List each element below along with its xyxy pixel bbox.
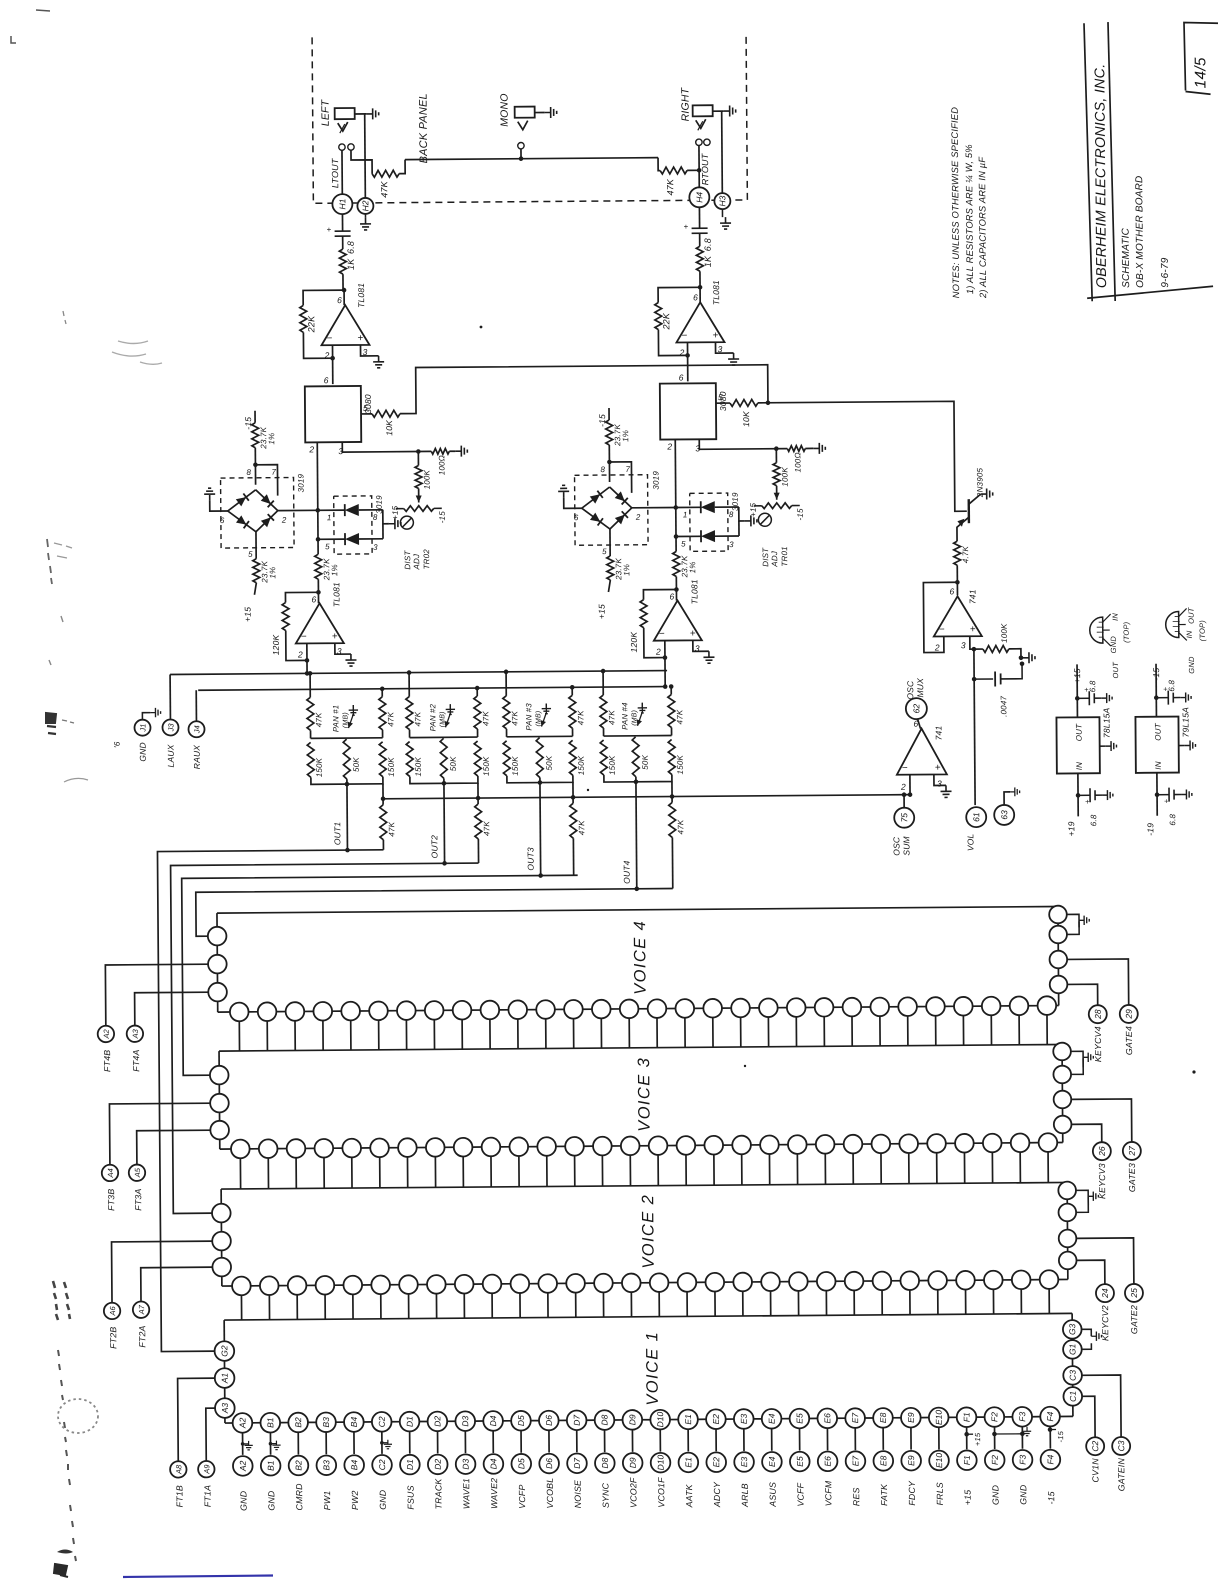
svg-text:26: 26 (1097, 1146, 1107, 1157)
wire pot1 to OUT1 (345, 782, 350, 787)
svg-text:LTOUT: LTOUT (330, 157, 340, 188)
bottom left curl and blot (57, 1550, 73, 1554)
svg-text:E8: E8 (878, 1412, 888, 1423)
svg-text:62: 62 (911, 704, 921, 714)
resistor 47K group2 right (476, 688, 478, 696)
svg-text:6: 6 (324, 375, 329, 385)
voice 3 right pins (1053, 1043, 1071, 1061)
pin 3 ground right (693, 640, 709, 651)
svg-text:6: 6 (574, 513, 579, 522)
connector 25 GATE2 (1076, 1238, 1134, 1284)
svg-text:47K: 47K (387, 821, 396, 836)
voice 3 left pin 3 (210, 1121, 229, 1140)
svg-text:LEFT: LEFT (320, 98, 332, 126)
connector H1 (332, 194, 352, 214)
resistor 100K left dist (416, 449, 421, 454)
resistor 22K left feedback (303, 290, 344, 305)
voice 4 pin row (230, 1003, 249, 1022)
svg-text:OSC: OSC (905, 680, 915, 700)
svg-text:G3: G3 (1067, 1323, 1077, 1335)
svg-text:D1: D1 (405, 1416, 415, 1427)
regulator 79L15A (1135, 717, 1178, 773)
svg-text:C3: C3 (1068, 1370, 1078, 1381)
svg-text:47K: 47K (510, 710, 519, 725)
svg-text:F1: F1 (961, 1412, 971, 1422)
pin 5 with resistor 10K right (716, 402, 730, 404)
voice 4 left pin 1 (208, 927, 227, 946)
connector A8 FT1B (170, 1461, 187, 1478)
svg-text:D9: D9 (627, 1414, 637, 1425)
connector 63 (994, 805, 1014, 825)
svg-text:IN: IN (1154, 761, 1163, 769)
svg-text:F2: F2 (990, 1455, 1000, 1465)
trimmer 100K DIST ADJ left (404, 506, 434, 512)
svg-text:22K: 22K (661, 312, 671, 330)
svg-text:8: 8 (246, 468, 251, 477)
resistor 150K group2 left (406, 742, 413, 777)
svg-text:ADJ: ADJ (412, 553, 421, 571)
svg-text:1: 1 (327, 513, 332, 522)
scan artifacts (11, 10, 162, 782)
svg-text:TR01: TR01 (780, 546, 789, 566)
svg-text:6: 6 (679, 372, 684, 382)
ground at MONO jack (535, 112, 545, 114)
svg-text:E1: E1 (683, 1457, 693, 1468)
svg-text:100K: 100K (780, 467, 789, 487)
svg-text:E10: E10 (934, 1453, 944, 1468)
svg-text:3: 3 (961, 640, 966, 650)
svg-text:6: 6 (220, 516, 225, 525)
svg-text:RTOUT: RTOUT (700, 152, 710, 185)
jack RIGHT contacts (696, 139, 702, 145)
svg-text:6: 6 (693, 292, 698, 302)
wire RIGHT jack sleeve to H3 (721, 111, 724, 193)
svg-text:2: 2 (281, 516, 287, 525)
resistor 47K group1 right (381, 689, 383, 697)
svg-text:(MB): (MB) (439, 711, 446, 727)
node rails group1 (310, 730, 312, 738)
svg-text:ADJ: ADJ (770, 550, 779, 568)
svg-text:741: 741 (934, 726, 944, 741)
svg-text:KEYCV4: KEYCV4 (1093, 1026, 1103, 1062)
svg-text:22K: 22K (306, 315, 316, 333)
svg-text:47K: 47K (481, 711, 490, 726)
svg-text:OBERHEIM ELECTRONICS, INC.: OBERHEIM ELECTRONICS, INC. (1092, 63, 1110, 288)
svg-text:-15: -15 (1056, 1430, 1065, 1442)
resistor 120K right feedback (643, 589, 676, 599)
capacitor 6.8 left output (341, 214, 343, 231)
svg-text:47K: 47K (314, 712, 323, 727)
svg-text:−: − (681, 330, 687, 341)
svg-text:-15: -15 (597, 414, 607, 427)
svg-text:75: 75 (899, 813, 909, 823)
svg-text:E10: E10 (934, 1410, 944, 1425)
svg-text:(MB): (MB) (342, 712, 349, 728)
svg-text:8: 8 (729, 510, 734, 519)
resistor 47K group3 right (571, 687, 573, 695)
svg-text:+19: +19 (1066, 821, 1076, 836)
capacitor 6.8 on +19 (1077, 773, 1079, 816)
svg-text:PW2: PW2 (350, 1490, 360, 1510)
svg-text:F3: F3 (1017, 1412, 1027, 1422)
svg-text:3: 3 (338, 446, 343, 456)
svg-text:D6: D6 (544, 1415, 554, 1426)
svg-text:C2: C2 (1090, 1440, 1100, 1451)
gnd link F2 F3 (994, 1433, 1022, 1435)
jack LEFT (335, 108, 355, 119)
svg-text:100Ω: 100Ω (793, 452, 802, 472)
voice 2 left pin 1 (212, 1204, 231, 1223)
svg-text:VOICE 2: VOICE 2 (639, 1194, 658, 1269)
svg-text:TL081: TL081 (711, 280, 721, 305)
stray specks (480, 326, 483, 329)
svg-text:A2: A2 (238, 1460, 248, 1472)
svg-text:H2: H2 (360, 200, 370, 211)
svg-text:FT2B: FT2B (108, 1327, 118, 1349)
svg-text:OUT2: OUT2 (429, 835, 439, 859)
svg-text:-15: -15 (438, 511, 447, 524)
svg-text:3: 3 (373, 543, 378, 552)
svg-text:−: − (902, 763, 908, 774)
svg-text:−: − (326, 333, 332, 344)
connector A3 FT4A (127, 1025, 144, 1042)
voice 3 left pin 1 (210, 1066, 229, 1085)
svg-text:150K: 150K (511, 756, 520, 776)
svg-text:B3: B3 (321, 1417, 331, 1428)
svg-text:IN: IN (1075, 762, 1084, 770)
svg-text:4.7K: 4.7K (961, 545, 970, 563)
voice 2 right pins (1058, 1182, 1076, 1200)
bridge pin 5 lower resistor 23.7K right (609, 529, 611, 556)
svg-text:5: 5 (602, 547, 607, 556)
svg-text:VOL: VOL (965, 833, 975, 851)
connector 61 VOL (966, 807, 986, 827)
svg-text:A2: A2 (102, 1029, 111, 1040)
wire to VOL (973, 679, 976, 805)
wire LTOUT (341, 150, 343, 194)
svg-text:1%: 1% (330, 564, 339, 576)
svg-text:E2: E2 (711, 1414, 721, 1425)
diodes right (676, 506, 701, 508)
svg-text:GND: GND (1018, 1484, 1028, 1505)
wire left channel summing bus (170, 671, 667, 675)
capacitor 6.8 on -15 (1155, 664, 1157, 717)
svg-text:61: 61 (971, 812, 981, 822)
jack RIGHT (693, 105, 713, 116)
voice 2 connector outline (221, 1182, 1067, 1189)
svg-text:KEYCV3: KEYCV3 (1097, 1163, 1107, 1199)
ground below H2 (364, 214, 366, 218)
svg-text:OUT3: OUT3 (525, 847, 535, 871)
svg-text:2: 2 (655, 647, 661, 657)
svg-text:3019: 3019 (297, 473, 306, 492)
svg-text:SYNC: SYNC (600, 1482, 610, 1508)
resistor 47K osc tap group3 (572, 782, 574, 803)
svg-text:A8: A8 (174, 1464, 183, 1475)
diode bridge 3019 left dashed box (221, 477, 295, 548)
svg-text:E1: E1 (683, 1414, 693, 1425)
resistor 100K right dist (774, 446, 779, 451)
svg-text:C3: C3 (1116, 1440, 1126, 1451)
svg-text:50K: 50K (545, 755, 554, 770)
svg-text:NOISE: NOISE (573, 1480, 583, 1508)
svg-text:1%: 1% (622, 564, 631, 576)
op-amp TL081 left output stage (343, 290, 345, 305)
svg-text:VOICE 3: VOICE 3 (635, 1057, 654, 1132)
svg-text:63: 63 (999, 810, 1009, 820)
center line junctions right (673, 505, 678, 510)
pin 3 of 3080 left trim network (342, 441, 431, 452)
svg-text:OUT4: OUT4 (622, 860, 632, 884)
svg-text:79L15A: 79L15A (1180, 707, 1190, 738)
svg-text:D4: D4 (488, 1458, 498, 1469)
svg-text:1: 1 (683, 510, 688, 519)
svg-text:+: + (935, 762, 941, 773)
grounds on voice1 gnd pins (241, 1442, 245, 1446)
resistor 23.7K 1% right center (673, 551, 680, 576)
pin 3 of 3080 right trim network (699, 439, 787, 450)
svg-text:GATEIN: GATEIN (1116, 1458, 1126, 1492)
resistor 100ohm left (431, 448, 449, 454)
svg-text:+: + (712, 330, 718, 341)
diode bridge 3019 right dashed box (575, 475, 649, 546)
power taps F1 F4 (964, 1432, 969, 1437)
svg-text:1K: 1K (703, 255, 713, 267)
svg-text:TL081: TL081 (689, 579, 699, 604)
connector 28 KEYCV4 (1067, 984, 1097, 1005)
jack LEFT contacts (339, 144, 345, 150)
resistor 47K group1 left (309, 673, 311, 697)
svg-text:B1: B1 (266, 1460, 276, 1471)
svg-text:LAUX: LAUX (166, 744, 176, 767)
arrow to trimmer right (776, 486, 778, 500)
svg-text:50K: 50K (449, 756, 458, 771)
svg-text:+: + (327, 225, 332, 234)
svg-text:PW1: PW1 (322, 1491, 332, 1511)
connector C3 GATEIN (1082, 1375, 1121, 1437)
voice 4 left pin 3 (208, 983, 227, 1002)
svg-text:+: + (1085, 797, 1090, 806)
svg-text:VCO2F: VCO2F (628, 1477, 638, 1508)
pin 3 to ground (360, 345, 378, 356)
svg-text:47K: 47K (379, 180, 389, 197)
resistor 47K osc tap group2 (477, 783, 479, 804)
svg-text:GND: GND (138, 742, 148, 762)
resistor 47K group4 left (602, 671, 604, 695)
svg-text:C2: C2 (377, 1416, 387, 1427)
svg-text:5: 5 (681, 539, 686, 548)
voice 3 connector outline (219, 1044, 1062, 1051)
svg-text:DIST: DIST (403, 550, 412, 570)
connector H3 (714, 193, 730, 209)
op-amp 741 osc mux (906, 698, 927, 719)
jack MONO (515, 107, 535, 118)
svg-text:150K: 150K (608, 755, 617, 775)
wire pot3 to OUT3 (538, 780, 543, 785)
resistor 4.7K (954, 541, 961, 565)
capacitor 6.8 right output (698, 207, 700, 228)
svg-text:8: 8 (373, 513, 378, 522)
voice 2 pin row (232, 1277, 251, 1296)
connector A4 FT3B (102, 1165, 119, 1182)
svg-text:FT1A: FT1A (202, 1485, 212, 1507)
svg-text:E5: E5 (794, 1413, 804, 1424)
resistor 150K group3 left (503, 741, 510, 776)
svg-text:47K: 47K (577, 820, 586, 835)
svg-text:VCFF: VCFF (795, 1482, 805, 1506)
svg-text:GATE2: GATE2 (1129, 1305, 1139, 1334)
connector C2 CVIN (1082, 1396, 1095, 1437)
svg-text:2N3905: 2N3905 (975, 467, 984, 498)
svg-text:TR02: TR02 (422, 549, 431, 570)
svg-text:+15: +15 (749, 502, 758, 517)
svg-text:OUT: OUT (1074, 723, 1083, 741)
dual diode 3019 right dashed box (690, 493, 728, 551)
voice 1 right ground (1081, 1329, 1091, 1336)
svg-text:B2: B2 (293, 1460, 303, 1471)
svg-text:47K: 47K (386, 711, 395, 726)
potentiometer 50K PAN #4 (632, 737, 639, 777)
voice 3 right ground (1071, 1051, 1083, 1067)
svg-text:TL081: TL081 (331, 582, 341, 607)
connector J3 LAUX (162, 719, 178, 735)
pin 2 (686, 342, 688, 381)
bridge ground right (564, 497, 582, 508)
svg-text:FT4A: FT4A (131, 1049, 141, 1071)
svg-text:B2: B2 (293, 1417, 303, 1428)
svg-text:D8: D8 (600, 1457, 610, 1468)
connector A6 FT2B (104, 1303, 121, 1320)
wire bridge to center line right (632, 506, 676, 508)
svg-text:-15: -15 (1046, 1491, 1056, 1504)
osc mux pin3 ground (934, 774, 946, 785)
svg-text:150K: 150K (315, 757, 324, 777)
svg-text:E6: E6 (822, 1413, 832, 1424)
svg-text:E3: E3 (739, 1456, 749, 1467)
resistor 22K right feedback (658, 287, 700, 302)
svg-text:9-6-79: 9-6-79 (1160, 257, 1171, 287)
svg-text:FRLS: FRLS (935, 1482, 945, 1505)
wire LEFT jack sleeve to H2 (364, 114, 367, 198)
svg-text:D6: D6 (544, 1458, 554, 1469)
connector 26 KEYCV3 (1071, 1124, 1101, 1142)
wire OUT2 bus (171, 863, 482, 1213)
connector A7 FT2A (133, 1301, 150, 1318)
svg-text:VOICE 4: VOICE 4 (631, 920, 650, 995)
resistor 150K group2 right (474, 741, 481, 776)
resistor 100K to ground (974, 648, 983, 650)
voice 4 pin stems (239, 1015, 1047, 1051)
svg-text:E6: E6 (823, 1456, 833, 1467)
svg-text:3: 3 (695, 643, 700, 653)
svg-text:MUX: MUX (915, 678, 925, 698)
svg-text:J1: J1 (138, 724, 147, 733)
svg-text:E4: E4 (767, 1413, 777, 1424)
resistor 1K left (339, 249, 346, 274)
svg-text:ADCY: ADCY (712, 1481, 722, 1508)
svg-text:3: 3 (729, 540, 734, 549)
svg-text:F3: F3 (1018, 1455, 1028, 1465)
svg-text:+: + (1164, 797, 1169, 806)
dual diode common to ground right (739, 507, 745, 521)
pin 2 (331, 345, 333, 384)
svg-text:6: 6 (913, 719, 918, 729)
svg-text:FT3B: FT3B (106, 1189, 116, 1211)
svg-text:J3: J3 (166, 723, 175, 733)
bridge pin 5 lower resistor 23.7K left (255, 532, 257, 559)
svg-text:RIGHT: RIGHT (679, 86, 691, 121)
svg-text:GATE4: GATE4 (1124, 1026, 1134, 1055)
resistor 47K osc tap group4 (671, 782, 673, 803)
svg-text:J4: J4 (192, 725, 201, 734)
connector A2 FT4B (98, 1026, 115, 1043)
svg-text:VOICE 1: VOICE 1 (643, 1331, 662, 1406)
svg-text:.0047: .0047 (999, 696, 1008, 717)
svg-text:E7: E7 (850, 1456, 860, 1467)
svg-text:1%: 1% (268, 567, 277, 579)
svg-text:25: 25 (1129, 1288, 1139, 1299)
svg-text:150K: 150K (676, 754, 685, 774)
resistor 47K group3 left (505, 672, 507, 696)
svg-text:100K: 100K (1000, 623, 1009, 643)
svg-text:D10: D10 (655, 1455, 665, 1471)
svg-text:OUT: OUT (1187, 606, 1196, 624)
svg-text:78L15A: 78L15A (1101, 707, 1111, 738)
svg-text:8: 8 (600, 465, 605, 474)
TO-92 package drawing 2 (1166, 612, 1179, 638)
svg-text:H4: H4 (694, 192, 704, 203)
svg-text:6.8: 6.8 (1088, 680, 1097, 692)
connector H2 (357, 198, 373, 214)
svg-text:C2: C2 (377, 1459, 387, 1470)
svg-text:NOTES: UNLESS OTHERWISE SPECIF: NOTES: UNLESS OTHERWISE SPECIFIED (950, 107, 962, 299)
svg-text:(MB): (MB) (535, 711, 542, 727)
svg-text:+15: +15 (1072, 668, 1082, 683)
svg-text:2: 2 (324, 350, 330, 360)
svg-text:A1: A1 (220, 1373, 230, 1385)
svg-text:VCO1F: VCO1F (656, 1477, 666, 1508)
svg-text:F4: F4 (1045, 1454, 1055, 1464)
svg-text:5: 5 (325, 542, 330, 551)
svg-text:150K: 150K (387, 757, 396, 777)
svg-text:B4: B4 (349, 1417, 359, 1428)
svg-text:-19: -19 (1145, 823, 1155, 836)
voice 4 left pin 2 (208, 955, 227, 974)
wire OUT4 bus (196, 889, 673, 937)
svg-text:(TOP): (TOP) (1122, 621, 1131, 643)
svg-text:1%: 1% (621, 430, 630, 442)
svg-text:D9: D9 (628, 1457, 638, 1468)
svg-text:5: 5 (718, 392, 723, 402)
voice 1 left pin 2 (215, 1368, 235, 1388)
resistor 47K group4 right (670, 687, 672, 695)
svg-text:1%: 1% (688, 561, 697, 573)
back panel dashed outline (312, 34, 747, 203)
svg-text:-15: -15 (243, 417, 253, 430)
svg-text:+15: +15 (597, 604, 607, 619)
svg-text:3: 3 (937, 778, 942, 788)
resistor 47K right mono mix (658, 158, 660, 171)
wire mono bus (351, 150, 372, 174)
svg-text:FT2A: FT2A (137, 1325, 147, 1347)
resistor 1K right (696, 246, 703, 271)
svg-text:D5: D5 (516, 1415, 526, 1426)
svg-text:−: − (939, 624, 945, 635)
svg-text:F4: F4 (1045, 1411, 1055, 1421)
voice 1 pin stems (243, 1426, 1051, 1455)
node rails group3 (506, 729, 508, 737)
svg-text:F2: F2 (989, 1412, 999, 1422)
